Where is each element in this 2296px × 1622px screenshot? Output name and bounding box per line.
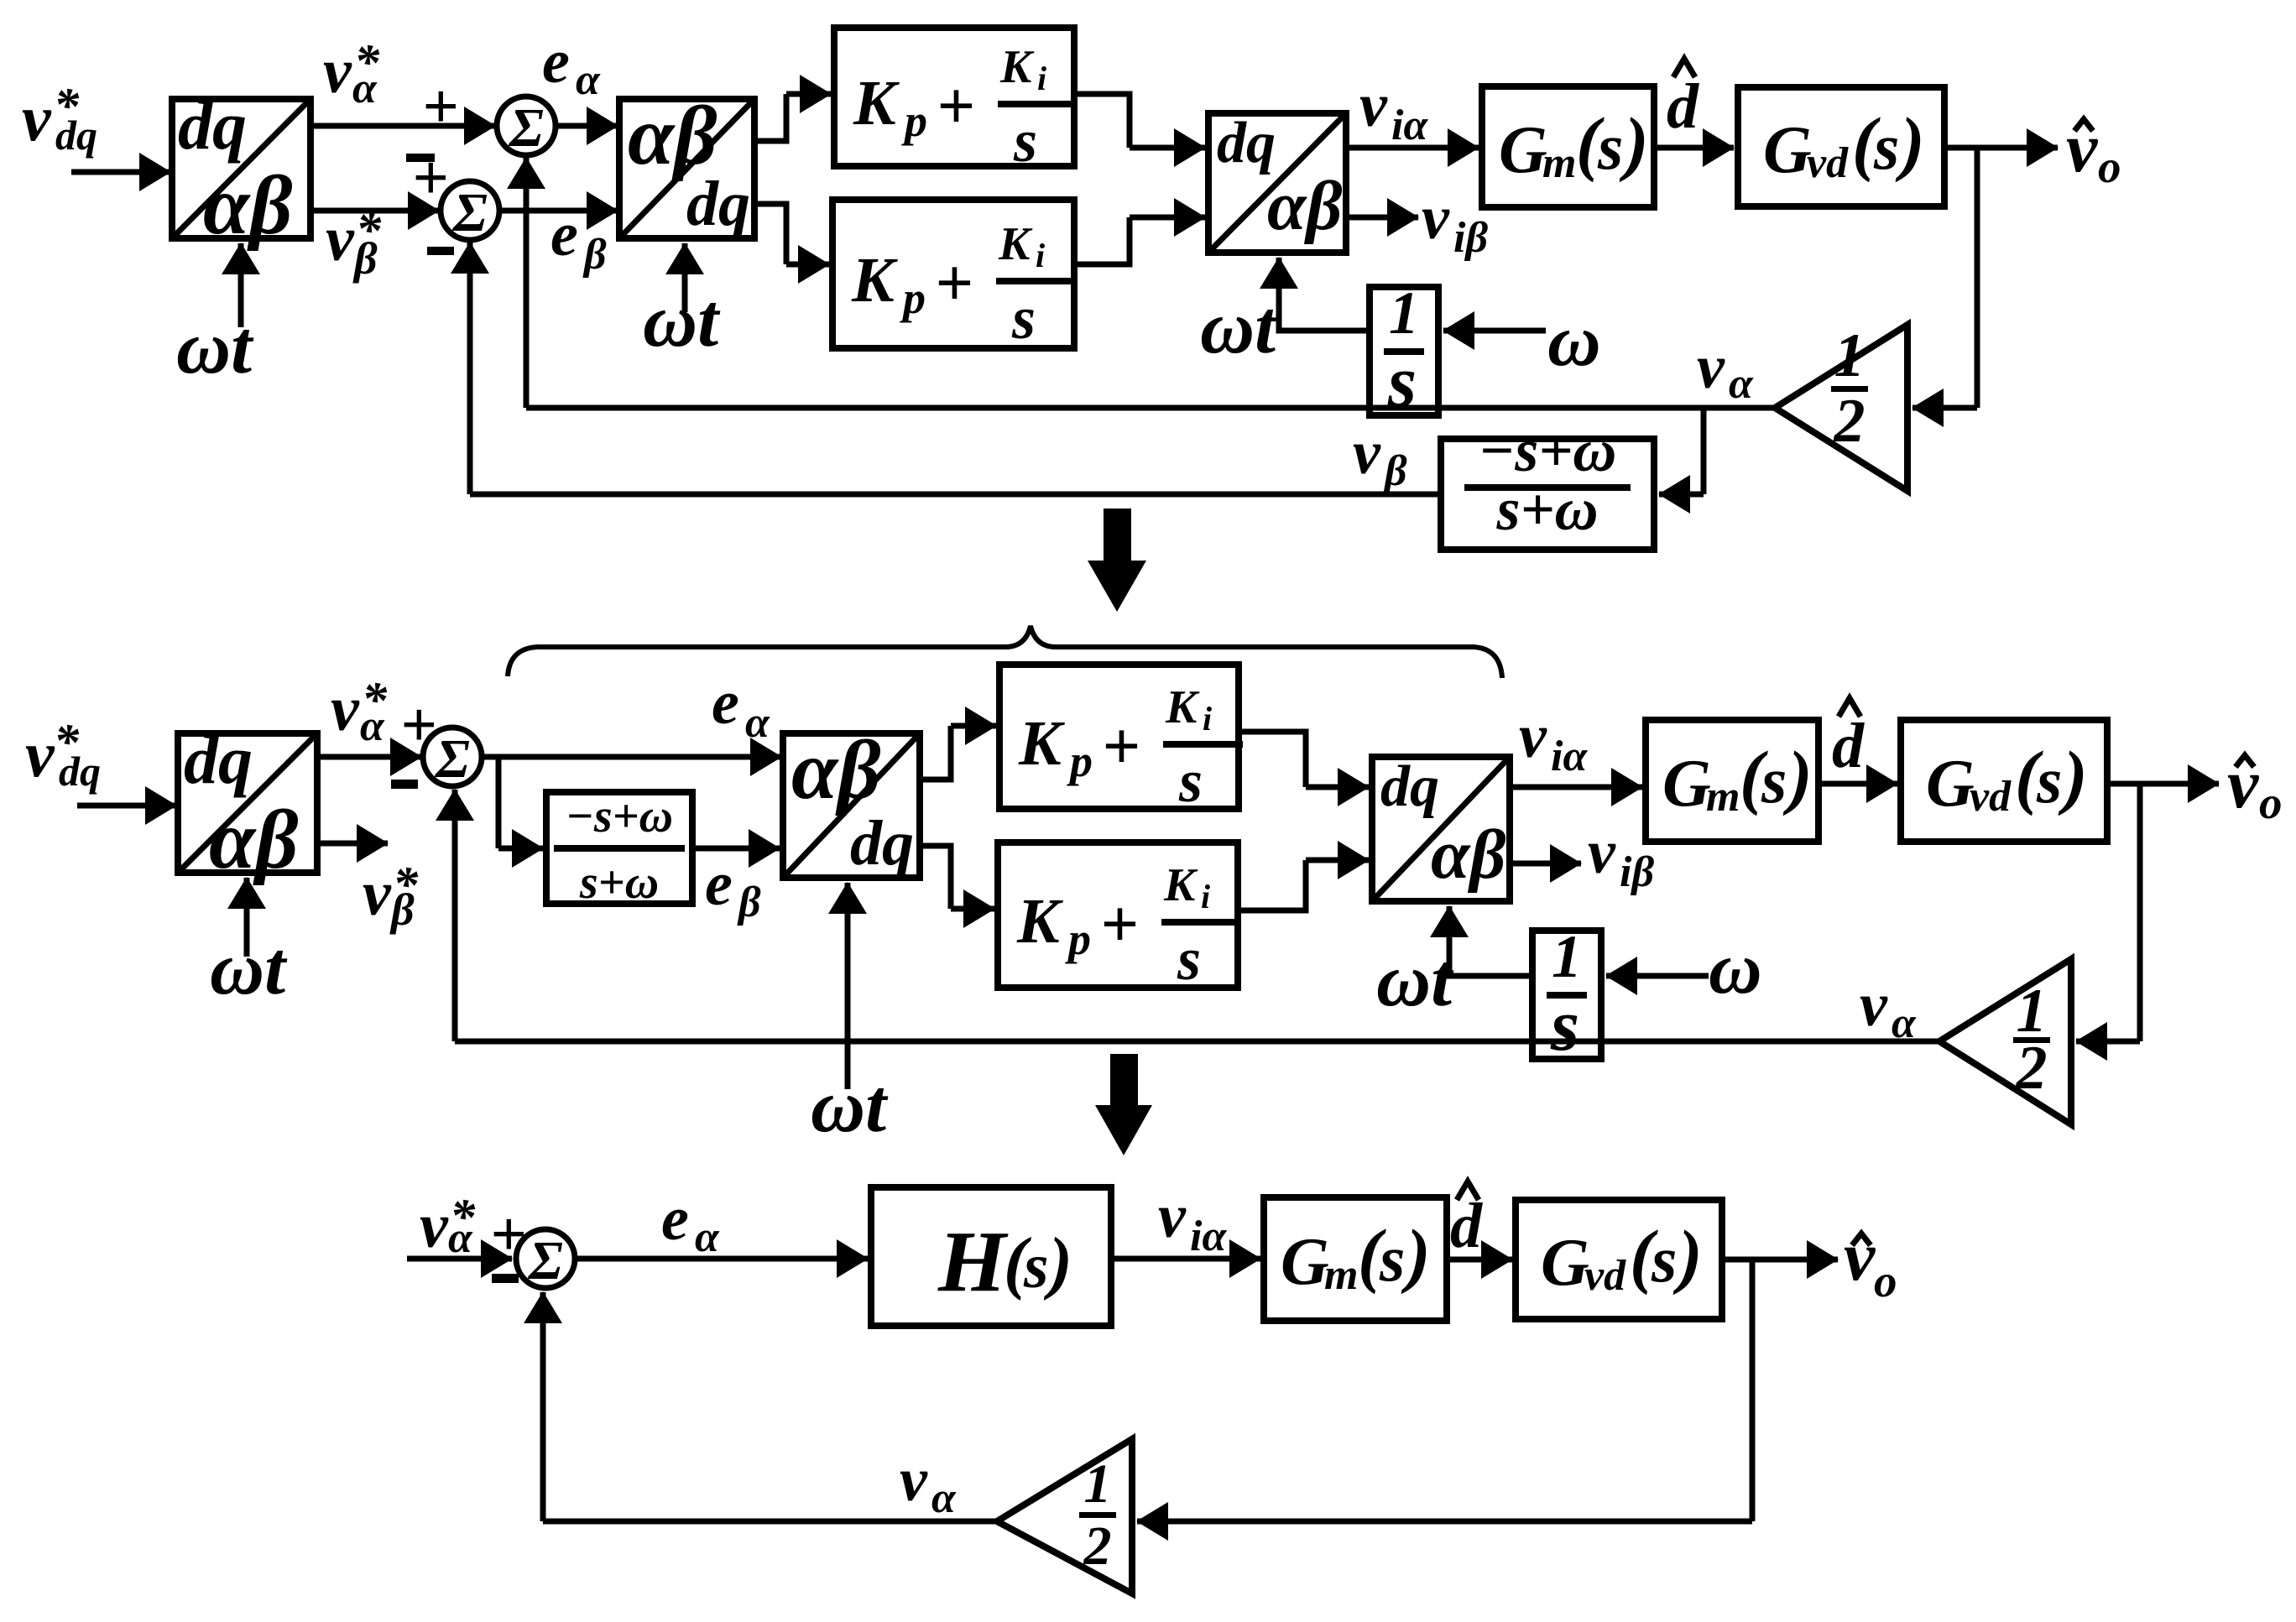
svg-text:v: v [326,204,355,274]
PI box D1-K1 [834,28,1074,166]
wire v_ialpha from H to Gm (D3) [1111,1256,1260,1262]
wire omega-t up into D1-B1 [238,243,244,327]
block dq->alphabeta D2-B1 [178,733,317,873]
svg-text:dq: dq [850,808,914,879]
svg-text:p: p [901,96,927,146]
svg-text:α: α [745,699,770,747]
wire e_alpha from sum to ab/dq (D2) [482,754,781,760]
svg-text:e: e [712,669,739,738]
svg-text:dq: dq [1380,754,1439,819]
wire v_ialpha to Gm (D1) [1346,145,1479,151]
svg-text:v: v [22,81,52,154]
svg-text:v: v [363,858,392,929]
svg-text:m: m [1706,773,1740,821]
wire feedback branch down from output (D3) [1750,1260,1756,1521]
wire input into summing junction (D3) [407,1256,512,1262]
svg-text:ωt: ωt [643,279,721,362]
svg-text:β: β [389,884,415,935]
svg-text:Σ: Σ [508,97,544,159]
svg-text:v: v [1519,702,1547,771]
svg-text:α: α [448,1214,473,1262]
svg-text:vd: vd [1970,773,2012,821]
svg-text:v: v [1353,419,1381,488]
block dq->alphabeta D1-B3 [1208,113,1346,253]
wire branch down into filter (D2) [496,757,502,848]
svg-text:β: β [352,233,378,284]
summing junction S2 (D1) [441,181,499,240]
svg-text:ωt: ωt [811,1065,889,1148]
wire v_alpha feedback line (D1) [526,405,1777,411]
svg-text:G: G [1281,1225,1329,1299]
wire feedback into 1/2 gain (D2) [2076,1039,2140,1045]
svg-text:dq: dq [55,112,97,159]
svg-text:v: v [1422,184,1450,253]
integrator box 1/s (D1) [1370,287,1438,415]
svg-text:1: 1 [1552,923,1582,990]
svg-text:v: v [1158,1182,1187,1251]
svg-text:α: α [352,65,378,112]
svg-text:iα: iα [1551,733,1588,780]
label minus at sum feedback input (D3) [492,1274,519,1283]
svg-text:s: s [1597,110,1623,183]
svg-text:v: v [323,36,352,107]
wire feedback branch down from output (D1) [1975,148,1980,408]
svg-text:dq: dq [178,87,247,164]
svg-text:o: o [2098,141,2121,192]
svg-text:K: K [851,245,898,316]
svg-text:1: 1 [1389,279,1419,347]
svg-text:s: s [1178,748,1203,815]
label minus at sum feedback input (D2) [391,780,418,789]
svg-text:v: v [1697,333,1725,402]
svg-text:dq: dq [59,748,101,795]
svg-text:G: G [1763,113,1812,187]
wire 1/s output left then up into D2-B3 (omega-t) [1449,940,1532,976]
thick down arrow between diagram 1 and 2 [1088,509,1146,612]
svg-text:s: s [1550,985,1579,1067]
svg-text:α: α [1729,360,1754,408]
wire v*_beta to summing junction S2 [310,208,439,214]
svg-text:d: d [1450,1191,1483,1261]
svg-text:s: s [2036,743,2062,816]
summing junction (D3) [516,1229,575,1288]
svg-text:v: v [331,674,360,744]
wire branch down into (-s+w)/(s+w) filter (D1) [1701,408,1707,494]
svg-text:s: s [1379,1222,1405,1295]
wire e_alpha from S1 to ab/dq block [556,123,618,129]
svg-text:v: v [1844,1218,1876,1296]
transfer block Gvd(s) (D1) [1738,87,1944,206]
svg-text:G: G [1662,747,1711,821]
svg-text:ω: ω [1709,928,1762,1009]
wire D2-B2 upper output jog to PI box 1 [920,726,951,780]
svg-text:v: v [900,1446,928,1515]
wire d-hat from Gm to Gvd (D1) [1654,145,1734,151]
svg-text:G: G [1541,1226,1589,1300]
svg-text:−s+ω: −s+ω [566,790,673,842]
svg-text:i: i [1203,700,1212,738]
wire S1 minus feedback vertical (from v_alpha line) [524,158,530,408]
wire d-hat from Gm to Gvd (D2) [1819,781,1897,787]
wire sum minus feedback vertical (D2) [452,790,458,1041]
svg-text:e: e [542,28,570,96]
svg-text:d: d [1667,71,1699,142]
svg-text:vd: vd [1807,139,1849,187]
svg-text:α: α [360,702,385,750]
wire v_alpha feedback line (D2) [455,1039,1942,1045]
filter box (-s+w)/(s+w) (D2) [546,792,692,904]
wire feedback branch down from output (D2) [2137,784,2143,1041]
transfer block Gvd(s) (D3) [1516,1200,1722,1319]
wire D2-B2 lower output jog to PI box 2 [920,846,951,909]
summing junction S1 (D1) [497,96,556,155]
svg-text:Σ: Σ [527,1230,563,1291]
svg-text:K: K [853,68,900,138]
svg-text:iα: iα [1391,102,1428,149]
wire omega into 1/s (D2) [1606,973,1709,979]
svg-text:αβ: αβ [209,793,299,886]
wire v_ialpha to Gm (D2) [1510,785,1642,790]
svg-text:+: + [937,70,975,143]
svg-text:s: s [1873,110,1899,183]
svg-text:v: v [1359,71,1388,140]
svg-text:e: e [705,850,733,919]
curly brace over inner loop (D2) [508,626,1502,678]
svg-text:v: v [1588,818,1616,887]
wire e_alpha from sum to H(s) [575,1256,868,1262]
wire D1-K1 output jog to dq/ab block D1-B3 [1074,94,1130,148]
gain triangle 1/2 (D1) [1775,325,1907,491]
svg-text:H: H [937,1213,1009,1310]
svg-text:s: s [1177,926,1201,993]
svg-text:αβ: αβ [1267,167,1343,245]
svg-text:−s+ω: −s+ω [1479,417,1617,484]
summing junction (D2) [423,728,482,786]
block dq->alphabeta D1-B1 [172,99,310,238]
svg-text:vd: vd [1584,1252,1626,1300]
wire output to v-hat_o (D1) [1944,145,2058,151]
svg-text:d: d [1832,711,1865,781]
svg-text:s: s [1011,284,1036,352]
svg-text:s: s [1761,743,1787,816]
svg-text:iβ: iβ [1453,214,1488,262]
svg-text:i: i [1201,878,1210,915]
wire D2-K2 output jog to dq/ab block D2-B3 [1238,860,1306,910]
PI box D2-K1 [999,665,1239,809]
wire D1-B2 upper output jog to PI box 1 [754,94,786,141]
svg-text:iα: iα [1190,1213,1227,1260]
svg-text:G: G [1499,113,1547,187]
svg-text:e: e [661,1185,689,1254]
PI box D2-K2 [998,842,1238,988]
wire 1/s output left then up into D1-B3 (omega-t) [1279,299,1370,331]
svg-text:s+ω: s+ω [579,857,659,909]
wire omega into 1/s (D1) [1443,328,1546,334]
svg-text:+: + [935,247,973,321]
wire omega-t up into D1-B2 [682,243,688,312]
wire omega-t up into D2-B2 (crosses feedback line) [845,883,851,1089]
svg-text:s+ω: s+ω [1495,476,1598,543]
block alphabeta->dq D1-B2 [619,99,754,238]
svg-text:p: p [1065,914,1091,964]
svg-text:ωt: ωt [176,306,254,389]
transfer block Gm(s) (D2) [1646,720,1819,842]
label minus at S2 feedback input [427,247,454,255]
wire filter output e_beta into ab/dq (D2) [692,846,780,852]
svg-text:G: G [1926,747,1975,821]
svg-text:αβ: αβ [1431,816,1506,894]
wire v_ibeta output stub (D1) [1346,215,1418,221]
wire D2-K1 output jog to dq/ab block D2-B3 [1239,732,1306,787]
wire input into dq/ab block D1-B1 [71,170,170,175]
svg-text:β: β [582,231,607,279]
gain triangle 1/2 (D3) [997,1439,1132,1593]
wire e_beta from S2 to ab/dq block [499,208,618,214]
svg-text:v: v [420,1191,449,1261]
wire v_beta feedback line (D1) [470,492,1441,498]
svg-text:αβ: αβ [791,723,881,816]
svg-text:v: v [25,717,55,790]
svg-text:i: i [1037,60,1046,97]
svg-text:β: β [1383,447,1407,495]
svg-text:ω: ω [1547,300,1601,382]
wire output to v-hat_o (D3) [1722,1257,1838,1263]
svg-text:s: s [1013,107,1037,175]
svg-text:α: α [931,1474,957,1522]
svg-text:p: p [1067,736,1093,786]
svg-text:+: + [422,71,458,142]
svg-text:Σ: Σ [434,728,470,790]
svg-text:ωt: ωt [1376,939,1454,1022]
svg-text:α: α [695,1213,720,1261]
svg-text:2: 2 [2016,1034,2048,1103]
svg-text:K: K [1018,708,1065,779]
svg-text:Σ: Σ [451,182,488,243]
wire d-hat from Gm to Gvd (D3) [1447,1257,1512,1263]
block alphabeta->dq D2-B2 [783,733,920,878]
svg-text:2: 2 [1834,387,1865,456]
svg-text:o: o [2259,777,2283,828]
wire v*_beta stub (D2) [317,841,388,847]
wire output to v-hat_o (D2) [2107,781,2219,787]
svg-text:αβ: αβ [203,159,293,252]
transfer block Gm(s) (D3) [1264,1197,1447,1321]
svg-text:K: K [1016,886,1063,957]
wire v_alpha feedback line (D3) [543,1519,999,1525]
wire feedback into 1/2 gain (D3) [1137,1519,1752,1525]
svg-text:m: m [1542,139,1576,187]
gain triangle 1/2 (D2) [1939,959,2071,1124]
svg-text:K: K [1165,681,1200,733]
svg-text:v: v [1860,971,1888,1040]
svg-text:β: β [737,879,761,926]
svg-text:1: 1 [1084,1453,1112,1515]
svg-text:e: e [551,201,578,269]
wire omega-t up into D2-B1 [244,878,250,957]
svg-text:+: + [1102,710,1140,784]
svg-text:dq: dq [184,722,253,798]
thick down arrow between diagram 2 and 3 [1095,1054,1152,1155]
svg-text:m: m [1324,1251,1358,1299]
svg-text:s: s [1651,1223,1677,1296]
wire S2 minus feedback vertical (from v_beta line) [467,243,473,494]
label minus at S1 feedback input [406,154,435,162]
svg-text:K: K [1163,859,1198,911]
svg-text:ωt: ωt [1200,286,1278,369]
integrator box 1/s (D2) [1532,931,1601,1059]
wire v*_alpha into summing junction (D2) [317,754,421,760]
block dq->alphabeta D2-B3 [1372,757,1510,901]
controller box H(s) [871,1187,1111,1326]
wire feedback vertical up into sum (D3) [540,1292,546,1521]
transfer block Gvd(s) (D2) [1901,720,2107,842]
svg-text:2: 2 [1083,1515,1112,1577]
svg-text:s: s [1023,1231,1049,1301]
wire feedback into 1/2 gain (D1) [1912,405,1977,411]
PI box D1-K2 [832,200,1074,348]
svg-text:dq: dq [1217,111,1276,175]
svg-text:+: + [1100,888,1139,962]
svg-text:o: o [1874,1255,1897,1306]
svg-text:K: K [998,218,1033,270]
wire v*_alpha to summing junction S1 [310,123,495,129]
svg-text:i: i [1036,237,1045,274]
svg-text:ωt: ωt [210,927,288,1010]
svg-text:1: 1 [1834,321,1865,390]
svg-text:K: K [999,41,1035,93]
wire input into dq/ab block D2-B1 [77,803,176,809]
filter box (-s+w)/(s+w) (D1) [1441,439,1654,550]
svg-text:iβ: iβ [1620,848,1654,896]
svg-text:dq: dq [686,169,750,239]
wire D1-B2 lower output jog to PI box 2 [754,204,786,264]
wire D1-K2 output jog to dq/ab block D1-B3 [1074,217,1130,264]
svg-text:α: α [576,56,601,104]
wire v_ibeta stub (D2) [1510,861,1581,867]
svg-text:p: p [900,273,926,323]
transfer block Gm(s) (D1) [1482,86,1654,207]
